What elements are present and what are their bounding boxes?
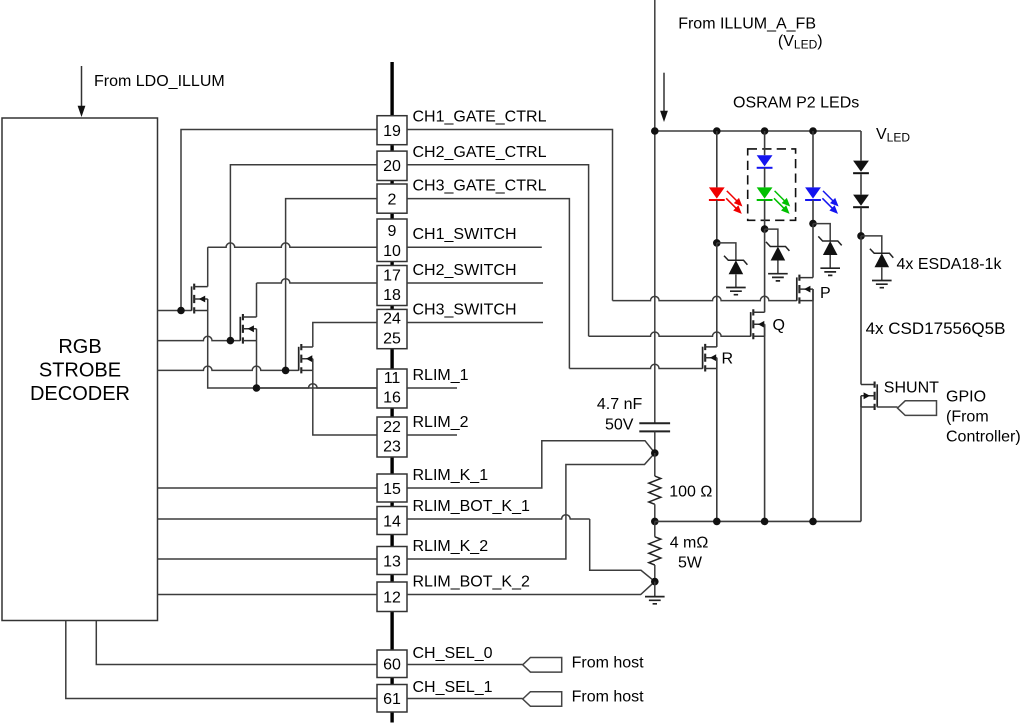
svg-text:16: 16	[383, 390, 401, 407]
svg-text:19: 19	[383, 123, 401, 140]
host tag CH_SEL_1	[523, 692, 562, 707]
ground	[645, 597, 665, 604]
svg-text:24: 24	[383, 311, 401, 328]
col4 wire to node	[860, 208, 862, 236]
pin 14	[377, 507, 407, 535]
wire decoder to M2 gate (hop over M1 source)	[158, 336, 241, 340]
junction dot rail/col2	[761, 127, 769, 135]
junction dot rail/col2 source	[761, 518, 769, 526]
wire RLIM_BOT_K_2 pin12 to shunt node	[407, 582, 655, 595]
svg-text:4x CSD17556Q5B: 4x CSD17556Q5B	[866, 319, 1006, 338]
svg-text:CH_SEL_1: CH_SEL_1	[413, 679, 493, 696]
pins 11/16	[377, 369, 407, 408]
svg-text:61: 61	[383, 691, 401, 708]
LED D3 blue	[805, 187, 821, 198]
wire pin2 left to M3 gate node	[286, 199, 377, 371]
svg-text:4.7 nF: 4.7 nF	[597, 396, 643, 413]
svg-text:2: 2	[388, 192, 397, 209]
pin 60	[377, 650, 407, 678]
svg-text:18: 18	[383, 287, 401, 304]
transistor SHUNT	[876, 384, 878, 407]
svg-text:4x ESDA18-1k: 4x ESDA18-1k	[897, 256, 1003, 273]
svg-text:60: 60	[383, 657, 401, 674]
svg-text:CH3_GATE_CTRL: CH3_GATE_CTRL	[413, 178, 547, 195]
ESD diode D8 (col4)	[861, 236, 882, 253]
svg-text:RLIM_BOT_K_1: RLIM_BOT_K_1	[413, 498, 530, 515]
wire M1 drain to CH1_SWITCH (hops over pin20,pin2 verticals)	[207, 247, 209, 286]
column 2 wire to Q drain	[764, 229, 766, 312]
junction dot rail/col3	[809, 127, 817, 135]
junction source rail / divider	[651, 518, 659, 526]
svg-text:4 mΩ: 4 mΩ	[670, 534, 709, 551]
diode D4b	[853, 195, 869, 206]
wire decoder to pin12 RLIM_BOT_K_2	[158, 594, 378, 596]
flow arrow	[663, 73, 665, 114]
transistor P	[796, 277, 798, 300]
svg-text:From host: From host	[572, 689, 645, 706]
VLED rail corner down to col4	[860, 131, 862, 161]
wire pin2 CH3_GATE_CTRL to transistor R gate	[407, 199, 569, 369]
ESD diode D7 (col3)	[813, 224, 830, 241]
transistor M2 (CH2 gate driver)	[239, 317, 241, 341]
capacitor C1 4.7nF 50V	[639, 422, 670, 424]
hop of RLIM_1 wire over M3 source	[260, 384, 378, 388]
RLIM_1 label underline	[407, 387, 457, 389]
column 2 wire top	[764, 131, 766, 155]
column 2 wire LED to node	[764, 200, 766, 229]
svg-text:23: 23	[383, 439, 401, 456]
host tag CH_SEL_0	[523, 658, 562, 673]
pin header bus	[390, 62, 393, 116]
svg-text:5W: 5W	[678, 555, 703, 572]
svg-text:GPIO: GPIO	[946, 389, 986, 406]
junction dot rail/col1 source	[713, 518, 721, 526]
column 3 wire top	[812, 131, 814, 187]
svg-text:R: R	[722, 351, 734, 368]
RLIM_2 label underline	[407, 434, 457, 436]
wire pin20 left to M2 gate node	[230, 165, 377, 341]
column 2 wire mid	[764, 168, 766, 188]
svg-text:SHUNT: SHUNT	[884, 379, 939, 396]
wire RLIM_K_2 pin13 to cap node	[407, 453, 655, 559]
svg-text:13: 13	[383, 553, 401, 570]
wire to ground	[654, 582, 656, 597]
wire pin20 CH2_GATE_CTRL to transistor Q gate	[407, 165, 589, 336]
svg-text:DECODER: DECODER	[30, 383, 130, 405]
pin 12	[377, 582, 407, 612]
dashed module outline	[748, 149, 796, 220]
svg-text:From LDO_ILLUM: From LDO_ILLUM	[94, 73, 225, 90]
pin 15	[377, 474, 407, 502]
diode D4a	[853, 161, 869, 172]
pins 9/10	[377, 219, 407, 262]
wire cap to node K	[654, 431, 656, 453]
transistor M3 (CH3 gate driver)	[298, 347, 300, 371]
svg-text:17: 17	[383, 267, 401, 284]
source rail	[655, 520, 861, 522]
svg-text:9: 9	[388, 223, 397, 240]
wire pin19 left to M1 gate node	[181, 130, 377, 311]
svg-text:CH2_SWITCH: CH2_SWITCH	[413, 262, 517, 279]
CH2_SWITCH label underline	[407, 282, 543, 284]
RGB STROBE DECODER block U1	[2, 118, 158, 621]
pins 22/23	[377, 417, 407, 457]
svg-text:CH_SEL_0: CH_SEL_0	[413, 645, 493, 662]
svg-text:22: 22	[383, 419, 401, 436]
svg-text:RLIM_2: RLIM_2	[413, 414, 469, 431]
junction dot col4 ESD	[857, 232, 865, 240]
svg-text:VLED: VLED	[876, 126, 910, 145]
svg-text:From ILLUM_A_FB: From ILLUM_A_FB	[678, 16, 816, 33]
CH1_SWITCH label underline	[407, 246, 542, 248]
column 3 wire P source to rail	[812, 289, 814, 521]
junction dot col1 ESD	[713, 239, 721, 247]
wire SHUNT gate to GPIO tag	[877, 406, 897, 408]
pin 13	[377, 547, 407, 575]
wire M2 source to RLIM_1 junction	[256, 341, 258, 388]
svg-text:CH1_SWITCH: CH1_SWITCH	[413, 226, 517, 243]
input arrow From LDO_ILLUM	[81, 66, 83, 109]
svg-text:(From: (From	[946, 409, 989, 426]
pin 19	[377, 116, 407, 145]
column 2 wire Q source to rail	[764, 324, 766, 521]
junction node K (RLIM_K)	[651, 449, 659, 457]
wire M1 source down to RLIM_1	[208, 311, 377, 389]
svg-text:100 Ω: 100 Ω	[669, 484, 712, 501]
LED D2b green	[757, 187, 773, 198]
column 3 wire to P drain	[812, 224, 814, 278]
svg-text:12: 12	[383, 590, 401, 607]
junction dot M3 gate	[282, 367, 290, 375]
wire decoder to M3 gate (hops over M1,M2 sources)	[158, 366, 299, 370]
col4 wire between diodes	[860, 174, 862, 194]
svg-text:CH2_GATE_CTRL: CH2_GATE_CTRL	[413, 144, 547, 161]
junction dot M1 gate	[177, 307, 185, 315]
LED D1 red	[709, 187, 725, 198]
VLED top rail	[655, 130, 861, 132]
wire pin61 to host tag	[407, 698, 523, 700]
svg-text:STROBE: STROBE	[39, 359, 121, 381]
wire decoder to M1 gate	[158, 310, 192, 312]
col4 wire down to SHUNT fet	[860, 236, 862, 385]
svg-text:P: P	[820, 285, 831, 302]
resistor R1 100 ohm	[654, 453, 656, 476]
ESD diode D6 (col2)	[765, 229, 778, 246]
pin 20	[377, 151, 407, 180]
svg-text:50V: 50V	[605, 416, 634, 433]
svg-text:20: 20	[383, 158, 401, 175]
svg-text:Q: Q	[773, 317, 785, 334]
resistor R2 4 mOhm 5W shunt	[654, 521, 656, 536]
wire decoder bottom to pin60 CH_SEL_0	[96, 621, 377, 665]
pin 61	[377, 685, 407, 713]
svg-text:14: 14	[383, 513, 401, 530]
svg-text:CH1_GATE_CTRL: CH1_GATE_CTRL	[413, 109, 547, 126]
wire decoder to pin14 RLIM_BOT_K_1	[158, 518, 378, 520]
svg-text:11: 11	[384, 370, 401, 387]
svg-text:15: 15	[383, 481, 401, 498]
junction node BOT_K	[651, 578, 659, 586]
pin 2	[377, 184, 407, 213]
wire decoder bottom to pin61 CH_SEL_1	[66, 621, 377, 699]
column 3 wire LED to node	[812, 200, 814, 223]
svg-text:10: 10	[383, 243, 401, 260]
CH3_SWITCH label underline	[407, 322, 543, 324]
svg-text:Controller): Controller)	[946, 429, 1021, 446]
column 1 wire top	[716, 131, 718, 187]
svg-text:25: 25	[383, 330, 401, 347]
column 1 wire R source to rail	[716, 358, 718, 522]
svg-text:(VLED): (VLED)	[778, 33, 823, 52]
svg-text:From host: From host	[572, 654, 645, 671]
wire RLIM_K_1 pin15 to cap node	[407, 441, 655, 488]
wire pin19 CH1_GATE_CTRL to transistor P gate (hops over 3 verticals)	[407, 130, 613, 301]
svg-text:RLIM_BOT_K_2: RLIM_BOT_K_2	[413, 574, 530, 591]
junction dot col3 ESD	[809, 220, 817, 228]
wire SHUNT source down to rail	[860, 396, 862, 522]
column 1 wire to R drain	[716, 243, 718, 347]
junction dot rail/col1	[713, 127, 721, 135]
wire decoder to pin13 RLIM_K_2	[158, 558, 378, 560]
junction dot RLIM_1/M2 source	[253, 384, 261, 392]
wire M2 drain to CH2_SWITCH (hop over pin2 vertical)	[256, 283, 258, 317]
GPIO tag	[898, 401, 937, 416]
junction dot col2 ESD	[761, 225, 769, 233]
svg-text:CH3_SWITCH: CH3_SWITCH	[413, 302, 517, 319]
svg-text:RLIM_K_1: RLIM_K_1	[413, 467, 489, 484]
junction dot rail/col3 source	[809, 518, 817, 526]
LED D2a blue	[757, 155, 773, 166]
pins 17/18	[377, 266, 407, 306]
wire M3 drain to CH3_SWITCH	[313, 323, 377, 348]
wire RLIM_BOT_K_1 pin14 to shunt node (hop over RLIM_K_2 vertical)	[407, 515, 590, 519]
wire M3 source down to RLIM_2	[313, 370, 377, 435]
junction dot feed/rail	[651, 127, 659, 135]
svg-text:RLIM_1: RLIM_1	[413, 367, 469, 384]
transistor M1 (CH1 gate driver)	[191, 286, 193, 310]
transistor R	[702, 347, 704, 369]
ESD diode D5 (col1)	[717, 243, 736, 260]
From ILLUM_A_FB feed line	[654, 0, 656, 423]
wire decoder to pin15 RLIM_K_1	[158, 487, 378, 489]
junction dot M2 gate	[227, 337, 235, 345]
transistor Q	[750, 312, 752, 336]
pins 24/25	[377, 309, 407, 348]
svg-text:RLIM_K_2: RLIM_K_2	[413, 538, 489, 555]
svg-text:OSRAM P2 LEDs: OSRAM P2 LEDs	[733, 95, 859, 112]
column 1 wire LED to node	[716, 200, 718, 243]
svg-text:RGB: RGB	[58, 336, 101, 358]
wire pin60 to host tag	[407, 664, 523, 666]
